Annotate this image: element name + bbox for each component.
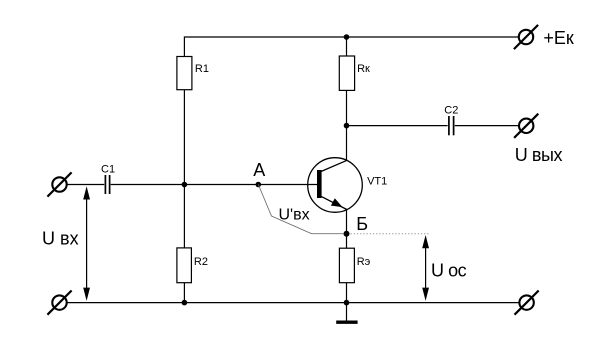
svg-text:A: A — [253, 160, 265, 180]
svg-text:Rк: Rк — [357, 63, 370, 75]
svg-text:R2: R2 — [194, 256, 208, 268]
svg-text:R1: R1 — [195, 63, 209, 75]
svg-text:+Ек: +Ек — [543, 28, 574, 48]
svg-text:VT1: VT1 — [367, 175, 387, 187]
svg-text:Б: Б — [356, 214, 368, 234]
svg-text:U вх: U вх — [42, 229, 79, 249]
svg-text:U вых: U вых — [515, 145, 563, 165]
svg-text:Rэ: Rэ — [357, 256, 371, 268]
svg-text:U'вх: U'вх — [279, 206, 310, 223]
svg-text:C1: C1 — [101, 164, 115, 176]
svg-text:U ос: U ос — [431, 260, 467, 280]
svg-text:C2: C2 — [444, 105, 458, 117]
